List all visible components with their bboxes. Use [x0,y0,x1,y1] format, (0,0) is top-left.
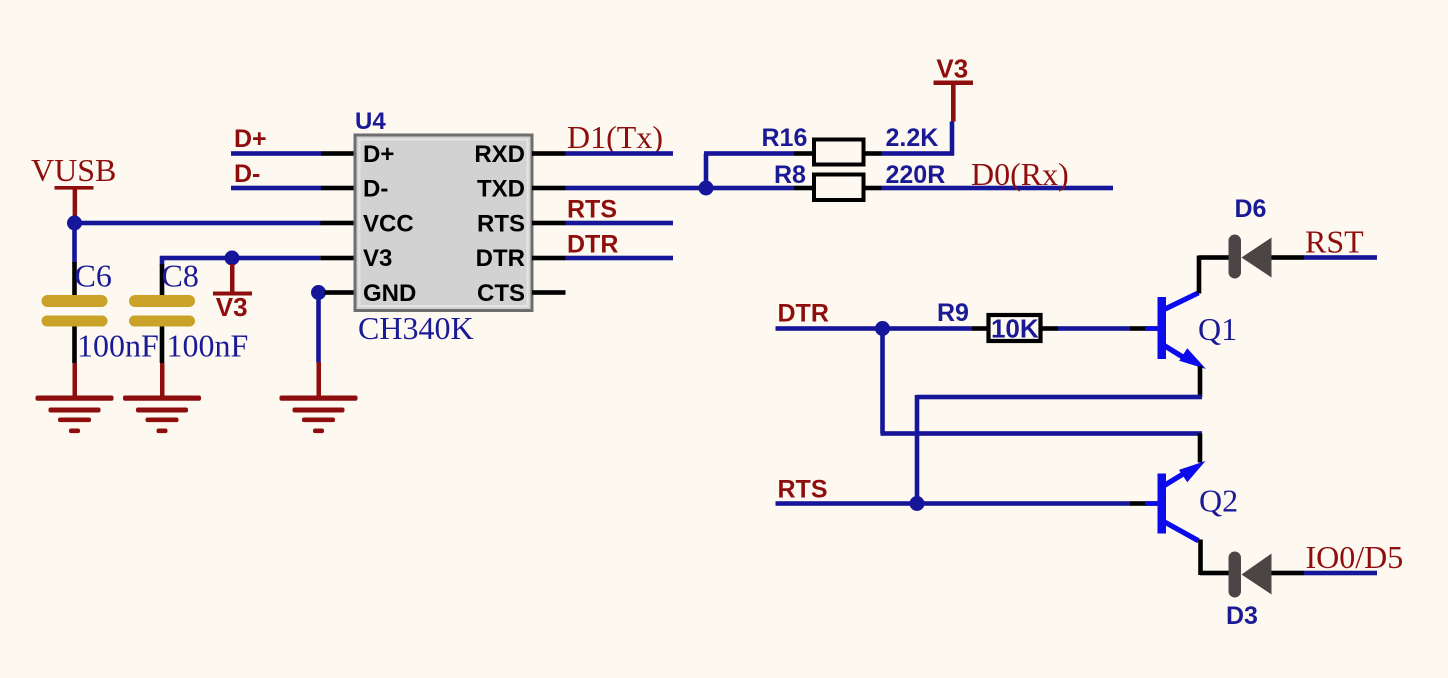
wire Q1 emitter to RTS net [917,395,1203,400]
pin Q1 base [1130,326,1158,331]
pin GND stub [325,290,356,295]
node DTR junction [875,321,890,336]
svg-text:220R: 220R [886,161,946,189]
svg-text:D-: D- [363,175,388,202]
svg-text:D0(Rx): D0(Rx) [971,156,1069,192]
wire C8 top to V3 junction [160,256,232,261]
svg-text:TXD: TXD [477,175,525,202]
wire TXD [566,186,795,191]
svg-text:R16: R16 [762,124,808,152]
svg-text:D+: D+ [363,141,394,168]
pin V3 stub [320,256,355,261]
svg-text:100nF: 100nF [167,328,249,364]
pin D- stub [321,186,355,191]
pin CTS stub [532,290,566,295]
svg-text:U4: U4 [355,108,386,135]
svg-text:CTS: CTS [477,280,525,307]
wire D- [231,186,321,191]
svg-text:R8: R8 [774,161,806,189]
wire junction to V3 pin [232,256,320,261]
pin TXD stub [532,186,566,191]
svg-text:DTR: DTR [476,245,525,272]
svg-text:V3: V3 [216,292,248,322]
svg-text:RTS: RTS [567,196,617,224]
svg-text:VUSB: VUSB [31,152,116,188]
diode D6 [1229,195,1305,279]
wire R8 to D0(Rx) [882,186,1114,191]
wire GND down [316,293,321,363]
wire D6 left [1199,255,1229,260]
node VUSB junction [67,216,82,231]
ground below U4 [280,362,358,433]
resistor R16 [762,124,939,165]
pin Q1 collector [1197,256,1202,294]
power port V3 (down) [213,264,252,322]
ground below C6 [36,363,114,433]
pin Q2 collector [1198,540,1203,576]
pin names U4 left [363,141,416,307]
pin names U4 right [474,141,525,307]
wire D+ [231,151,321,156]
transistor Q2 [1145,461,1238,541]
wire D3 left [1200,571,1229,576]
wire DTR to Q2 emitter [881,431,1203,436]
diode D3 [1226,552,1304,631]
power port VUSB [31,152,116,217]
wire DTR [566,256,674,261]
svg-text:100nF: 100nF [77,328,159,364]
resistor R8 [774,161,945,200]
svg-text:DTR: DTR [778,300,829,328]
svg-text:IO0/D5: IO0/D5 [1306,539,1404,575]
power port V3 (top right) [934,54,974,122]
wire to R16 [704,151,794,156]
IC U4 body [355,108,532,346]
svg-text:D6: D6 [1235,195,1267,223]
svg-text:V3: V3 [363,245,392,272]
node RTS junction [910,496,925,511]
wire IO0/D5 [1304,571,1377,576]
svg-text:CH340K: CH340K [358,310,474,346]
svg-text:RXD: RXD [474,141,525,168]
pin Q2 emitter [1198,434,1203,463]
ground below C8 [123,363,201,433]
svg-text:GND: GND [363,280,416,307]
pin VCC stub [320,221,355,226]
pin DTR stub [532,256,566,261]
svg-text:VCC: VCC [363,210,414,237]
svg-text:Q1: Q1 [1198,311,1237,347]
svg-text:D+: D+ [234,125,267,153]
resistor R9 [937,299,1058,344]
svg-text:C8: C8 [162,258,199,294]
svg-text:R9: R9 [937,299,969,327]
capacitor C6 [42,258,159,364]
wire R16 to V3 [882,151,955,156]
wire RTS [566,221,674,226]
wire RTS to Q2 base [776,501,1131,506]
svg-text:RST: RST [1305,224,1364,260]
wire RST [1304,255,1377,260]
node GND junction [311,285,326,300]
wire DTR to R9 [776,326,973,331]
svg-text:C6: C6 [75,258,112,294]
pin Q2 base [1130,501,1158,506]
svg-text:10K: 10K [991,314,1039,344]
transistor Q1 [1145,293,1237,369]
wire VUSB junction down to C6 [72,223,77,263]
wire DTR junction down [880,329,885,434]
wire R9 to Q1 base [1058,326,1130,331]
svg-text:D1(Tx): D1(Tx) [567,119,663,155]
svg-text:V3: V3 [936,54,968,84]
svg-text:D-: D- [234,160,260,188]
node TXD junction [699,181,714,196]
wire RXD [566,151,674,156]
wire junction up to R16 [704,154,709,189]
pin RTS stub [532,221,566,226]
svg-text:D3: D3 [1226,602,1258,630]
svg-text:RTS: RTS [778,476,828,504]
svg-text:DTR: DTR [567,231,618,259]
svg-text:RTS: RTS [477,210,525,237]
pin Q1 emitter [1198,366,1203,397]
pin RXD stub [532,151,566,156]
svg-text:Q2: Q2 [1199,483,1238,519]
capacitor C8 [129,258,248,364]
svg-text:2.2K: 2.2K [886,124,939,152]
wire VUSB to VCC pin [75,221,321,226]
node V3 junction left [225,251,240,266]
pin D+ stub [321,151,355,156]
